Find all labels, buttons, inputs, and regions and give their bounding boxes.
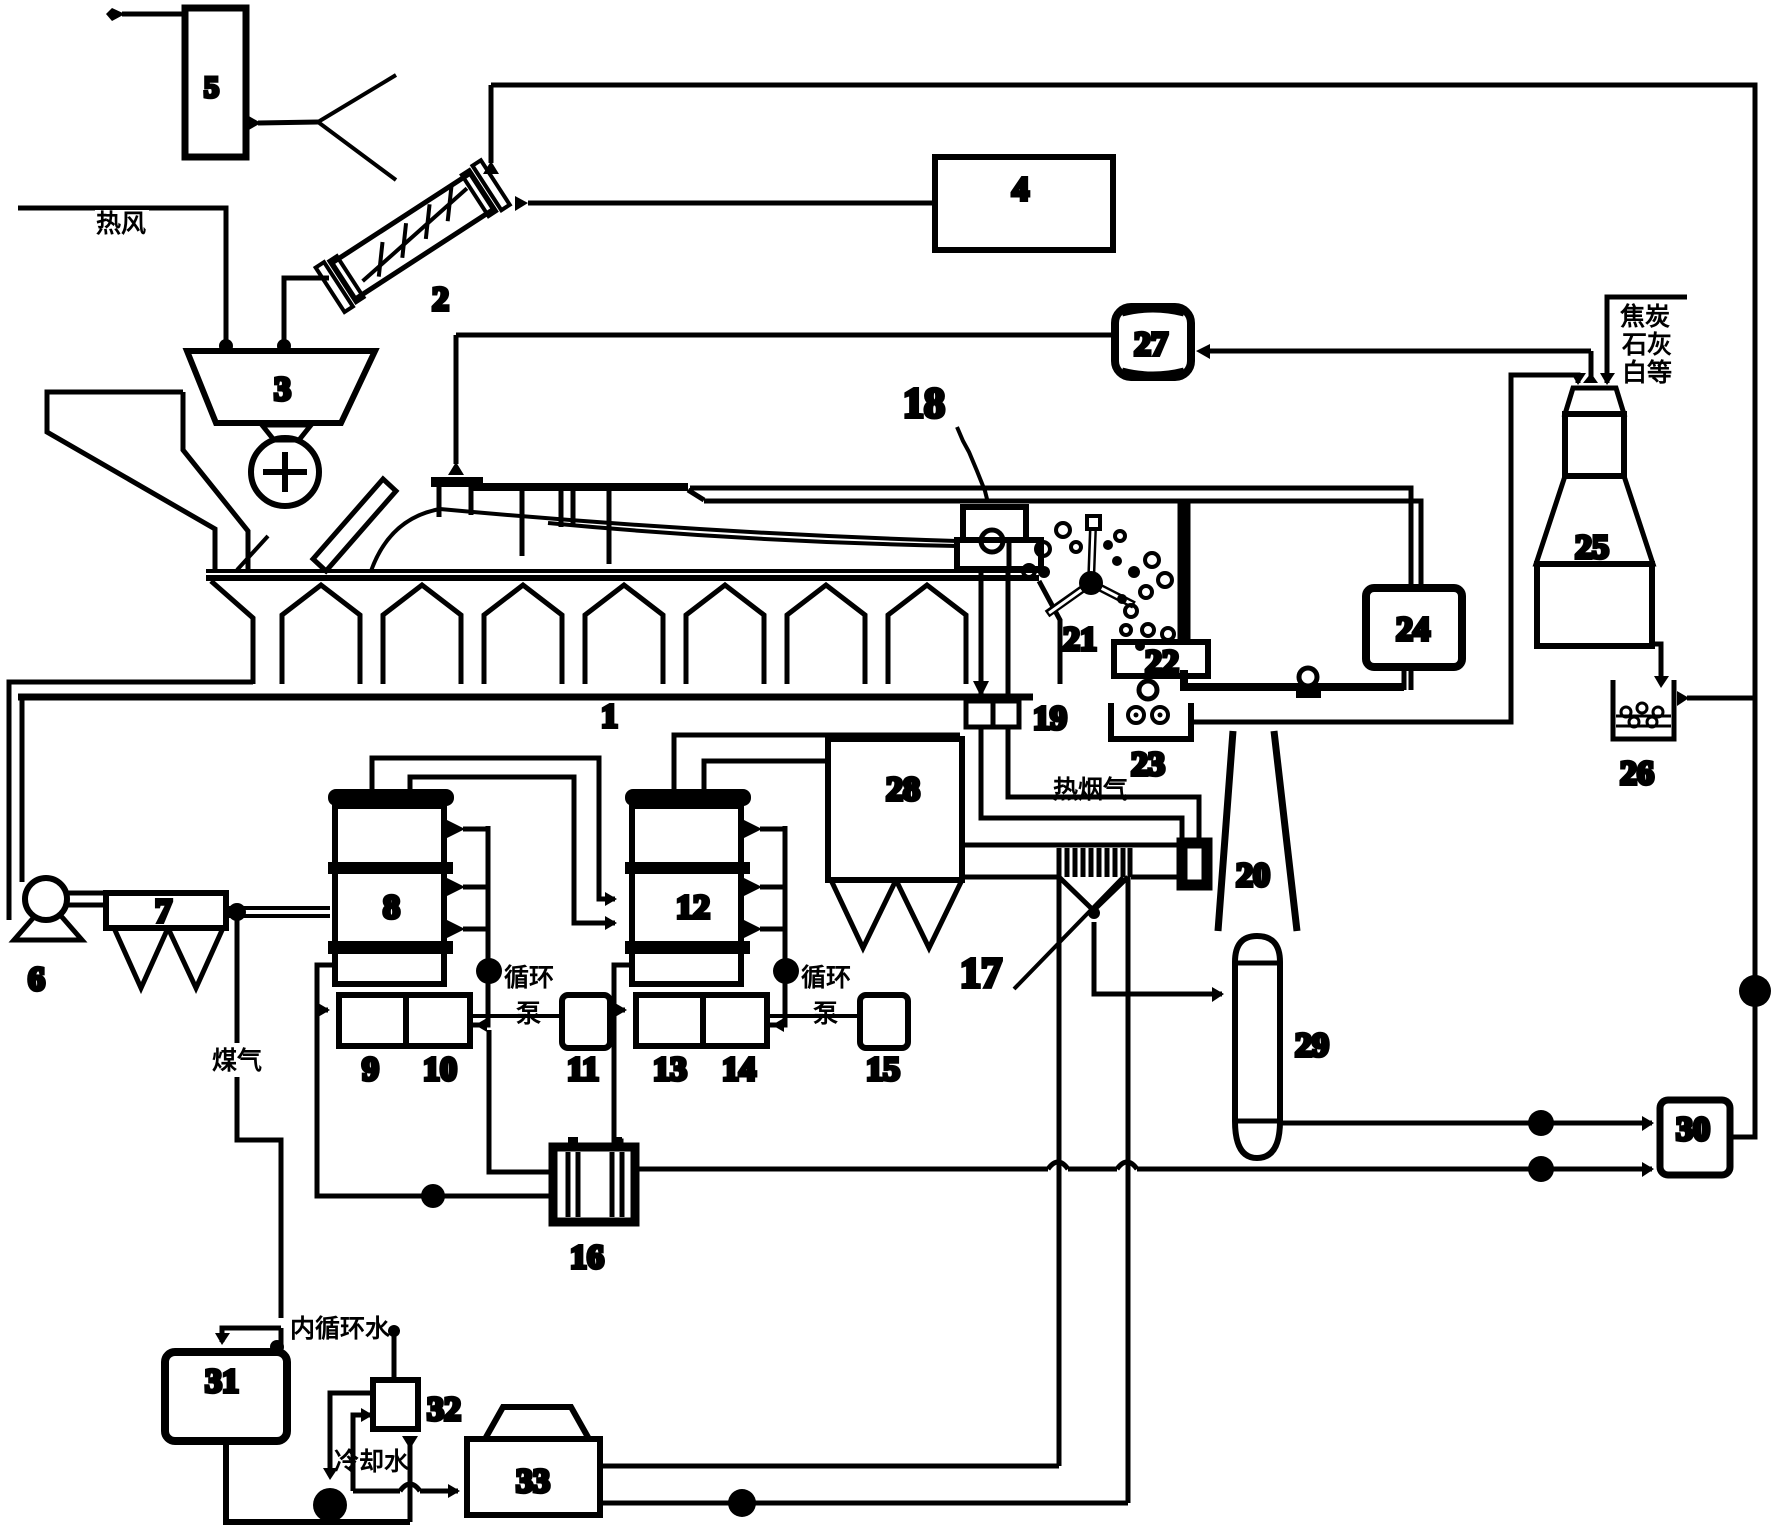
svg-text:13: 13: [653, 1051, 687, 1088]
svg-text:7: 7: [155, 893, 172, 930]
heat exchanger 17 grid: [1059, 848, 1130, 877]
svg-text:33: 33: [516, 1463, 550, 1500]
box 30: [1660, 1100, 1730, 1175]
tanks 9 and 10: [339, 995, 470, 1046]
chimney 20: [1218, 731, 1297, 931]
fork V lines: [318, 75, 396, 122]
bottom line from 31: [226, 1441, 410, 1522]
wire 14 to 15: [767, 1014, 860, 1018]
box 4: [935, 157, 1113, 250]
raw material feed line into 25: [1607, 297, 1687, 383]
wire 29 to 30: [1280, 1121, 1652, 1126]
right line down into 30: [1730, 698, 1755, 1137]
box 24: [1366, 588, 1462, 667]
junction node: [228, 903, 246, 921]
windbox right wall: [1039, 581, 1060, 684]
container 26: [1613, 680, 1674, 739]
svg-text:内循环水: 内循环水: [290, 1314, 391, 1343]
svg-text:17: 17: [960, 951, 1002, 997]
wire pump6 to dust box 7: [67, 893, 106, 905]
wire 7 to tower 8: [226, 908, 330, 916]
tower 8 spray nozzles: [447, 820, 465, 838]
pump 6: [14, 901, 82, 940]
chute inner baffle: [237, 536, 268, 570]
thick drop pipe from hood pipe to box 22: [1178, 501, 1191, 646]
svg-text:31: 31: [205, 1363, 239, 1400]
node dot on hopper 3 top (from hot-air line): [219, 339, 233, 353]
tower 8 outlet to tank 9: [317, 965, 333, 1010]
wire from drum outlet down to hopper 3: [284, 278, 329, 340]
svg-text:27: 27: [1134, 326, 1168, 363]
svg-text:1: 1: [601, 698, 618, 735]
wire into 31 top with arrow: [222, 1328, 281, 1342]
svg-text:29: 29: [1295, 1027, 1329, 1064]
scrubber tower 8: [328, 789, 454, 806]
sinter bed curves: [371, 509, 440, 571]
pipes tower 8 top to tower 12: [372, 758, 615, 899]
drum feeder circle with plus: [251, 438, 319, 506]
svg-text:冷却水: 冷却水: [334, 1447, 410, 1476]
hopper 3 outlet neck: [262, 425, 311, 440]
svg-text:10: 10: [423, 1051, 457, 1088]
svg-text:22: 22: [1145, 644, 1179, 681]
discharge tower 18 head: [963, 507, 1026, 540]
wire from right line into 26 with arrow: [1687, 696, 1755, 701]
tower 18 downpipe: [981, 569, 1008, 701]
collector V of 17: [1059, 877, 1128, 908]
economizer duct: [962, 843, 1177, 848]
box 31: [165, 1352, 287, 1441]
flue duct from 19 to junction: [981, 727, 1182, 838]
windbox peaks: [282, 585, 360, 684]
svg-text:8: 8: [383, 889, 400, 926]
hoppers of 28: [831, 880, 896, 948]
downcomers from 17 to water heater: [1059, 877, 1128, 1503]
svg-text:28: 28: [886, 771, 920, 808]
wire from 9 down to 16: [317, 1010, 553, 1196]
svg-text:23: 23: [1131, 746, 1165, 783]
wire from hood area to box 27: [456, 333, 1115, 338]
rotary drum mixer 2: [316, 160, 510, 312]
top return line across page: [491, 85, 1755, 698]
svg-text:24: 24: [1396, 611, 1430, 648]
ignition hood of machine 1: [431, 477, 483, 487]
pump on right line: [1739, 975, 1771, 1007]
svg-text:15: 15: [866, 1051, 900, 1088]
tower 12 spray nozzles: [744, 820, 762, 838]
svg-text:白等: 白等: [1622, 358, 1672, 387]
bag filter 28: [828, 739, 962, 880]
svg-text:18: 18: [903, 381, 945, 427]
svg-text:热风: 热风: [96, 210, 146, 238]
wire from text dot into 32: [388, 1325, 400, 1337]
svg-text:循环: 循环: [504, 963, 554, 992]
feed chute to machine 1: [47, 392, 215, 571]
left recirculation pipe to pump 6: [9, 682, 253, 920]
hopper 3: [187, 351, 375, 423]
wire from 10 down to 16: [489, 1030, 553, 1172]
machine hood roof (thick): [473, 483, 688, 491]
svg-text:9: 9: [362, 1051, 379, 1088]
tanks 13 and 14: [636, 995, 767, 1046]
svg-text:30: 30: [1676, 1111, 1710, 1148]
droplet below 22: [1139, 681, 1157, 699]
outlet of 25 into 26: [1652, 644, 1661, 684]
svg-text:煤气: 煤气: [212, 1046, 262, 1075]
junction elbow box: [1182, 843, 1207, 885]
recycle wire from 23 up into 25: [1191, 375, 1578, 722]
wire 32 bottom down: [408, 1440, 413, 1522]
wire into 27 from right with arrow: [1206, 349, 1591, 354]
pump under 32: [313, 1488, 347, 1522]
spray droplets: [1023, 523, 1174, 640]
wires 33 to downcomers: [600, 1464, 1059, 1469]
svg-text:12: 12: [676, 889, 710, 926]
box 27 (gas holder): [1115, 307, 1191, 377]
svg-text:2: 2: [432, 281, 449, 318]
wire from top return line into drum with arrow: [489, 85, 494, 163]
hoppers of 7: [114, 928, 168, 988]
scrubber tower 12: [625, 789, 751, 806]
svg-text:石灰: 石灰: [1621, 331, 1672, 359]
tower 8 circulation pipe and pump: [473, 826, 488, 1025]
heat exchanger 16: [553, 1147, 635, 1222]
svg-text:19: 19: [1033, 700, 1067, 737]
pallet line of machine 1: [206, 569, 1039, 573]
svg-text:25: 25: [1575, 529, 1609, 566]
thick slurry line from 22 to 24: [1184, 670, 1404, 687]
wire from 13 down to 16 top: [614, 1010, 621, 1147]
svg-text:16: 16: [570, 1239, 604, 1276]
cooling loop around 32: [330, 1393, 373, 1476]
wire from box 4 into drum with arrow: [528, 201, 935, 206]
tower 12 circulation pipe and pump: [770, 826, 785, 1025]
wire from line 27 down into hood with arrow: [454, 335, 459, 464]
box 11: [562, 995, 610, 1048]
hood hangers: [522, 489, 609, 564]
wire from 17 collector to tank 29: [1094, 922, 1222, 994]
cooling water line to 33 with jumpover: [353, 1489, 458, 1494]
long hood pipes to box 24: [704, 501, 1421, 588]
wire fork into 5: [258, 122, 318, 123]
svg-text:32: 32: [427, 1391, 461, 1428]
diagonal deflector plate: [313, 479, 396, 571]
box 32: [373, 1380, 418, 1429]
tank 29: [1235, 936, 1280, 1121]
granulator spray 21: [1047, 527, 1134, 614]
svg-text:焦炭: 焦炭: [1620, 302, 1670, 331]
tower 12 outlet to tank 13: [614, 965, 630, 1010]
svg-text:4: 4: [1012, 171, 1029, 208]
svg-text:6: 6: [28, 961, 45, 998]
svg-text:14: 14: [722, 1051, 756, 1088]
svg-text:循环: 循环: [801, 963, 851, 992]
small pump on slurry line: [1299, 668, 1317, 686]
box 15: [860, 995, 908, 1048]
svg-text:热烟气: 热烟气: [1053, 775, 1128, 804]
wire outlet of 5 with arrow: [122, 12, 185, 17]
machine bottom trough line: [18, 694, 1033, 701]
svg-text:26: 26: [1620, 755, 1654, 792]
svg-text:5: 5: [204, 71, 219, 104]
box 19: [966, 701, 1019, 727]
coal gas line down to 31: [237, 912, 281, 1318]
mixing hopper 25: [1565, 388, 1624, 414]
box 5: [185, 8, 246, 157]
water heater 33: [485, 1407, 589, 1439]
long water line from 16 to 30 with jumpovers: [636, 1167, 1652, 1172]
dust collector 7: [106, 893, 226, 928]
svg-text:21: 21: [1063, 621, 1097, 658]
container 23: [1111, 703, 1191, 739]
svg-text:20: 20: [1236, 857, 1270, 894]
svg-text:11: 11: [567, 1051, 599, 1088]
wire 10 to 11: [470, 1014, 562, 1018]
svg-text:3: 3: [274, 371, 291, 408]
pipes tower 12 top to 28: [674, 735, 960, 789]
hot-air line (label 热风): [18, 208, 226, 340]
windbox left wall: [211, 581, 253, 684]
text internal circulating water: [288, 1313, 392, 1341]
box 22: [1114, 642, 1208, 676]
